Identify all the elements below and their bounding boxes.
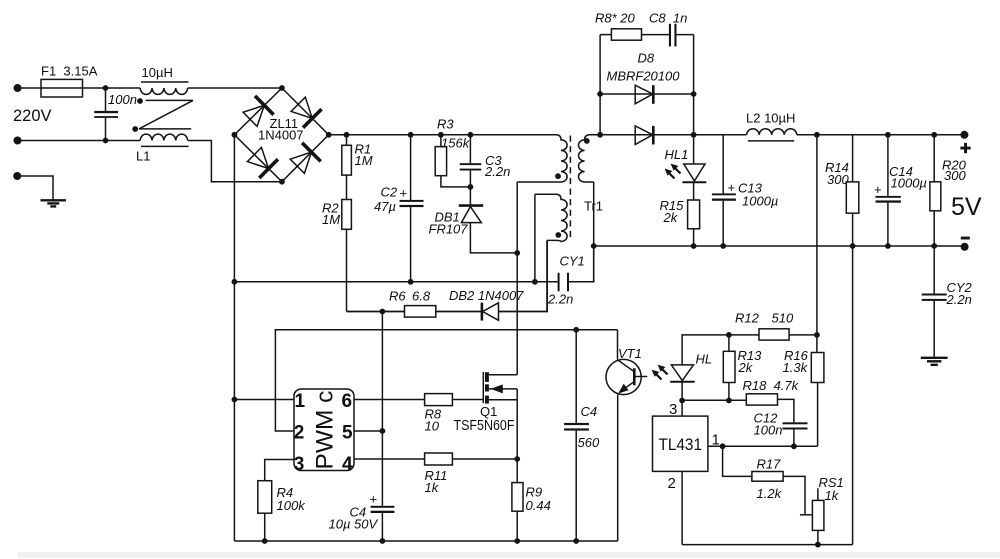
wire TL431 pin1 line (708, 445, 818, 447)
label C12 (754, 411, 779, 426)
resistor R6 (405, 306, 482, 318)
label pin 1 TL431 (712, 432, 720, 449)
svg-text:2.2n: 2.2n (946, 292, 972, 307)
label DB1 value FR107 (429, 222, 469, 237)
svg-text:5: 5 (342, 422, 353, 443)
resistor R3 (435, 135, 470, 187)
label L2 10uH (746, 111, 795, 126)
svg-text:3: 3 (294, 454, 305, 475)
svg-text:47µ: 47µ (374, 199, 396, 214)
node junction fuse/C100n (103, 85, 109, 91)
svg-text:0.44: 0.44 (526, 498, 551, 513)
label 10uH (142, 65, 173, 80)
label R11 value 1k (425, 480, 440, 495)
svg-text:510: 510 (772, 311, 794, 326)
wire pin3 lead (265, 460, 294, 481)
ground CY2 earth symbol (921, 358, 948, 365)
svg-text:300: 300 (827, 172, 849, 187)
node HL cathode pin3 junction (679, 398, 685, 404)
wire top AC line to bridge (18, 87, 282, 89)
resistor R18 (746, 394, 794, 423)
label pin 2 TL431 (668, 475, 676, 492)
node DB1 drain junction (514, 250, 520, 256)
resistor R16 (811, 335, 824, 446)
svg-text:1: 1 (295, 391, 306, 412)
resistor R17 (723, 446, 813, 515)
diode D8 upper (600, 85, 694, 104)
label R17 (757, 457, 782, 472)
label pin 4 (342, 454, 353, 475)
label RS1 (819, 475, 844, 490)
label pin 3 (669, 401, 677, 418)
resistor R4 (258, 481, 272, 541)
wire pin1 lead (234, 399, 294, 401)
diode bridge ZL11 outline (234, 88, 328, 182)
label R8 value 10 (425, 419, 440, 434)
svg-text:2: 2 (668, 475, 676, 492)
wire TL431 ground rail (682, 544, 853, 546)
label pin 5 (342, 422, 353, 443)
wire PWM supply vertical (381, 312, 383, 506)
wire R18 line (682, 399, 746, 401)
label PWM rotated (312, 391, 339, 470)
resistor R11 (425, 453, 518, 465)
label C4 560 (581, 404, 598, 419)
node bridge left vertex (232, 132, 238, 138)
wire primary bottom rail (234, 540, 617, 542)
node AC neutral input terminal (14, 137, 22, 145)
label C2 value 47u (374, 199, 396, 214)
node pin1 junction (232, 397, 238, 403)
wire earth lead (17, 176, 53, 200)
node RS1 bottom junction (815, 542, 821, 548)
label Tr1 (584, 199, 603, 214)
svg-text:2: 2 (294, 422, 305, 443)
capacitor C2 electrolytic (400, 135, 424, 282)
label ZL11 (270, 116, 299, 131)
label Q1 value TSF5N60F (454, 418, 515, 434)
capacitor C14 electrolytic (876, 135, 901, 246)
node Tr1 aux phase dot (555, 232, 561, 238)
resistor R15 (688, 200, 700, 246)
resistor RS1 (812, 488, 824, 544)
node C4 560 top junction (573, 327, 579, 333)
node bridge top vertex (279, 85, 285, 91)
wire TL431 pin2 lead (681, 471, 683, 544)
label C12 value 100n (754, 423, 783, 438)
capacitor C4 electrolytic 10u (371, 506, 395, 541)
wire source to R11 junction (516, 400, 518, 459)
wire aux top vertical (534, 194, 536, 281)
svg-text:R8* 20: R8* 20 (595, 11, 636, 26)
diode bridge bottom-left (247, 147, 278, 178)
node sec gnd transformer junction (591, 243, 597, 249)
svg-text:CY1: CY1 (560, 254, 585, 269)
label VT1 (618, 346, 642, 361)
watermark strip (18, 552, 1000, 558)
svg-text:5V: 5V (951, 193, 982, 221)
svg-text:2k: 2k (738, 360, 754, 375)
svg-text:1.3k: 1.3k (783, 360, 809, 375)
label CY1 (560, 254, 585, 269)
node R1 top junction (344, 132, 350, 138)
diode DB2 1N4007 (482, 240, 547, 320)
node R6 line to PWM supply junction (380, 309, 386, 315)
capacitor CY2 (922, 246, 947, 357)
svg-text:100n: 100n (754, 423, 783, 438)
svg-text:TSF5N60F: TSF5N60F (454, 418, 515, 434)
LED HL1 (683, 135, 707, 200)
node feedback top junction (814, 132, 820, 138)
label C3 (485, 153, 502, 168)
svg-text:10µ 50V: 10µ 50V (329, 517, 379, 532)
wire secondary gnd to TL431 rail (852, 246, 854, 545)
wire VT1 emitter vertical (617, 395, 619, 541)
diode D8 lower (635, 126, 653, 145)
label R3 value 156k (441, 136, 471, 151)
label R6 value 6.8 (412, 289, 431, 304)
label R8* 20 (595, 11, 636, 26)
label output minus sign (961, 237, 970, 240)
wire DC+ rail bridge to transformer (329, 134, 556, 136)
node R20 top junction (931, 132, 937, 138)
svg-text:R12: R12 (735, 311, 760, 326)
label R4 value 100k (277, 498, 307, 513)
node C2 bottom junction (408, 279, 414, 285)
svg-text:L1: L1 (136, 149, 150, 164)
resistor R13 (723, 335, 735, 401)
label C4 value 560 (578, 435, 600, 450)
node pin5 junction (380, 428, 386, 434)
label DB1 (435, 210, 460, 225)
svg-text:156k: 156k (441, 136, 471, 151)
label pin 2 (294, 422, 305, 443)
label R14 (825, 160, 849, 175)
label C14 (889, 164, 913, 179)
label R12 value 510 (772, 311, 794, 326)
label C13 (738, 181, 763, 196)
op-amp U2 TL431 (653, 401, 708, 472)
label R1 value 1M (355, 153, 373, 168)
label R8 (425, 407, 442, 422)
node secondary top junction (597, 132, 603, 138)
LED HL1 emission arrows (665, 164, 681, 179)
svg-text:MBRF20100: MBRF20100 (607, 69, 681, 84)
transformer Tr1 primary winding (517, 135, 567, 182)
label R20 value 300 (944, 168, 966, 183)
wire primary bottom to drain (516, 182, 518, 375)
label R13 value 2k (738, 360, 754, 375)
wire secondary ground rail (594, 245, 965, 247)
diode bridge top-left (243, 96, 274, 127)
label C8 1n (649, 11, 687, 26)
capacitor CY1 (558, 246, 594, 291)
wire primary ground rail (234, 281, 557, 283)
node R12 right junction (814, 332, 820, 338)
label R2 (322, 201, 339, 216)
node L1 phase dot top (137, 98, 143, 104)
node Tr1 primary phase dot (555, 173, 561, 179)
svg-text:+: + (728, 180, 736, 195)
resistor R20 (930, 135, 941, 246)
label pin 6 (342, 391, 353, 412)
node R15 bottom junction (691, 243, 697, 249)
svg-text:DB2 1N4007: DB2 1N4007 (449, 288, 524, 303)
svg-text:1k: 1k (825, 488, 840, 503)
inductor L1 common-mode choke (140, 82, 188, 146)
transformer Tr1 aux winding (535, 194, 567, 241)
svg-text:VT1: VT1 (618, 346, 642, 361)
node R3 C3 DB1 junction (468, 184, 474, 190)
label TL431 (659, 436, 703, 454)
svg-text:6.8: 6.8 (412, 289, 431, 304)
transformer Tr1 core (569, 136, 571, 240)
node snubber left lower junction (597, 91, 603, 97)
label C13 value 1000u (742, 194, 778, 209)
svg-text:C4: C4 (581, 404, 598, 419)
node C13 bottom junction (720, 243, 726, 249)
svg-text:L2 10µH: L2 10µH (746, 111, 795, 126)
label R14 value 300 (827, 172, 849, 187)
node R9 bottom junction (514, 538, 520, 544)
label C14 value 1000u (891, 176, 927, 191)
label C13 plus (728, 180, 736, 195)
node bridge bottom vertex (279, 179, 285, 185)
svg-text:HL: HL (696, 352, 713, 367)
wire pin5 lead (354, 430, 382, 432)
label HL1 (665, 147, 689, 162)
label 1N4007 (258, 128, 304, 143)
label R11 (425, 468, 448, 483)
capacitor C12 (783, 422, 808, 446)
svg-text:2.2n: 2.2n (484, 164, 510, 179)
svg-text:300: 300 (944, 168, 966, 183)
wire pin2 lead detour (275, 330, 617, 431)
wire R12 to HL anode (682, 335, 729, 365)
svg-text:F1 3.15A: F1 3.15A (41, 64, 98, 79)
wire L1 coupling mark (139, 100, 193, 128)
node Tr1 secondary phase dot (584, 138, 590, 144)
svg-text:FR107: FR107 (429, 222, 469, 237)
label C4 plus (370, 492, 378, 507)
label R4 (277, 485, 294, 500)
node C14 top junction (885, 132, 891, 138)
wire feedback sense vertical (816, 135, 818, 335)
svg-text:1M: 1M (355, 153, 373, 168)
node AC line input terminal (14, 84, 22, 92)
node C3 top junction (468, 132, 474, 138)
label C14 plus (874, 182, 882, 197)
resistor R1 (342, 135, 352, 175)
svg-text:C2: C2 (381, 185, 398, 200)
wire R1 to R2 (346, 175, 348, 199)
svg-text:1000µ: 1000µ (742, 194, 778, 209)
label R9 value 0.44 (526, 498, 551, 513)
svg-text:R6: R6 (389, 289, 406, 304)
ground earth symbol (41, 200, 67, 206)
label pin 1 (295, 391, 306, 412)
wire output plus rail (797, 134, 965, 136)
label D8 (638, 51, 655, 66)
transistor Q1 MOSFET (483, 372, 517, 404)
label R16 (784, 348, 809, 363)
node output plus terminal (960, 131, 968, 139)
svg-text:R18 4.7k: R18 4.7k (743, 378, 800, 393)
label C2 + (381, 185, 408, 201)
node output minus terminal (961, 243, 969, 251)
node R4 bottom junction (262, 538, 268, 544)
svg-text:D8: D8 (638, 51, 655, 66)
label F1 3.15A (41, 64, 98, 79)
wire secondary bottom vertical (593, 182, 595, 282)
label R13 (738, 348, 763, 363)
node C4 bottom junction (380, 538, 386, 544)
resistor R12 (729, 329, 817, 340)
svg-text:10µH: 10µH (142, 65, 173, 80)
svg-text:HL1: HL1 (665, 147, 689, 162)
svg-text:1k: 1k (425, 480, 440, 495)
label C4 (350, 505, 367, 520)
LED HL optocoupler (670, 365, 695, 401)
svg-text:+: + (874, 182, 882, 197)
node R14 bottom junction (850, 243, 856, 249)
op-amp U1 PWM controller box (294, 389, 354, 471)
svg-text:C8 1n: C8 1n (649, 11, 687, 26)
wire snubber right vertical (693, 35, 695, 135)
label R15 value 2k (663, 210, 679, 225)
wire pin2 line to VT1 collector (617, 330, 619, 360)
label R1 (355, 142, 372, 157)
svg-text:220V: 220V (13, 107, 52, 125)
label R18 4.7k (743, 378, 800, 393)
label R12 (735, 311, 760, 326)
resistor R9 (512, 459, 523, 541)
label L1 (136, 149, 150, 164)
node C14 bottom junction (885, 243, 891, 249)
wire pin4 lead (354, 458, 425, 460)
capacitor C3 (460, 135, 482, 187)
label R3 (437, 117, 454, 132)
wire pin6 lead (354, 399, 425, 401)
capacitor C4 560 (564, 330, 589, 541)
wire bottom AC neutral (18, 140, 141, 142)
label R2 value 1M (322, 212, 340, 227)
label CY2 (947, 280, 973, 295)
svg-text:2.2n: 2.2n (547, 292, 573, 307)
label D8 value MBRF20100 (607, 69, 681, 84)
resistor R2 (342, 200, 352, 312)
label Q1 (480, 404, 497, 419)
svg-text:TL431: TL431 (659, 436, 703, 454)
label R16 value 1.3k (783, 360, 809, 375)
label HL (696, 352, 713, 367)
svg-text:1000µ: 1000µ (891, 176, 927, 191)
label R17 value 1.2k (757, 486, 783, 501)
node R13 bottom junction (726, 398, 732, 404)
node R20 bottom junction (931, 243, 937, 249)
node R17 branch junction (720, 443, 726, 449)
node snubber right lower junction (691, 91, 697, 97)
svg-text:4: 4 (342, 454, 353, 475)
svg-text:2k: 2k (663, 210, 679, 225)
wire bridge minus vertical (233, 135, 235, 541)
node junction neutral/C100n (103, 138, 109, 144)
capacitor 100n (94, 88, 118, 141)
wire secondary plus rail (600, 134, 747, 136)
node C4 560 bottom junction (573, 538, 579, 544)
wire R6 feed line (347, 311, 405, 313)
svg-text:Tr1: Tr1 (584, 199, 603, 214)
node R3 top junction (438, 132, 444, 138)
label 5V (951, 193, 982, 221)
svg-text:PWM c: PWM c (312, 391, 339, 470)
svg-text:10: 10 (425, 419, 440, 434)
label DB2 1N4007 (449, 288, 524, 303)
label R6 (389, 289, 406, 304)
optocoupler light arrows (652, 365, 668, 380)
label R20 (942, 158, 967, 173)
label 220V (13, 107, 52, 125)
node R12 left junction (726, 332, 732, 338)
diode bridge bottom-right (290, 143, 321, 174)
svg-text:+: + (400, 186, 408, 201)
node R11 source junction (514, 456, 520, 462)
node C2 top junction (408, 132, 414, 138)
label R15 (660, 198, 685, 213)
transformer Tr1 secondary winding (579, 135, 601, 182)
diode bridge top-right (291, 97, 322, 128)
label CY2 value 2.2n (946, 292, 972, 307)
svg-text:560: 560 (578, 435, 600, 450)
svg-text:1M: 1M (322, 212, 340, 227)
label pin 3 (294, 454, 305, 475)
node L1 phase dot bottom (132, 126, 138, 132)
svg-text:100k: 100k (277, 498, 307, 513)
wire snubber left vertical (599, 35, 601, 135)
label RS1 value 1k (825, 488, 840, 503)
node primary ground left junction (232, 279, 238, 285)
node earth terminal (13, 172, 21, 180)
svg-text:6: 6 (342, 391, 353, 412)
node C12 bottom junction (791, 443, 797, 449)
resistor R8 (425, 394, 483, 406)
node aux winding CY1 junction (532, 279, 538, 285)
capacitor C13 electrolytic (712, 135, 736, 246)
svg-text:1.2k: 1.2k (757, 486, 783, 501)
label R9 (526, 485, 543, 500)
label 100n (108, 92, 137, 107)
label output plus sign (960, 143, 970, 153)
label C4 value 10u 50V (329, 517, 379, 532)
label CY1 value 2.2n (547, 292, 573, 307)
svg-text:100n: 100n (108, 92, 137, 107)
capacitor C8 (669, 24, 694, 47)
inductor L2 (747, 129, 797, 141)
svg-text:R17: R17 (757, 457, 782, 472)
svg-text:+: + (370, 492, 378, 507)
node bridge right vertex (326, 132, 332, 138)
node main output junction (691, 132, 697, 138)
fuse F1 (41, 79, 83, 97)
transistor VT1 optocoupler (606, 359, 647, 394)
wire L1 bottom to bridge (188, 141, 282, 182)
svg-text:1N4007: 1N4007 (258, 128, 304, 143)
resistor R8* 20 (600, 29, 669, 40)
label C3 value 2.2n (484, 164, 510, 179)
diode DB1 FR107 (459, 187, 517, 253)
resistor R14 (846, 135, 859, 246)
svg-text:R3: R3 (437, 117, 454, 132)
